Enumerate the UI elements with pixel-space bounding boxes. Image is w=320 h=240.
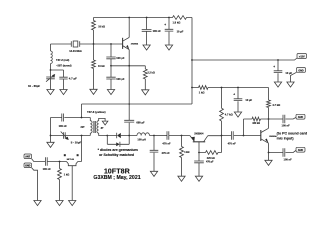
node collector rail junction: [128, 17, 130, 19]
connector AF out 2: [296, 147, 305, 152]
connector AF out 1: [296, 114, 305, 119]
capacitor C13 470uF emitter bypass: [194, 153, 204, 177]
transformer T1 core: [94, 121, 95, 133]
capacitor C12 100nF antenna: [45, 157, 66, 166]
svg-text:AUD: AUD: [298, 116, 303, 119]
node LO rail crossing: [128, 103, 130, 105]
wire LO emitter drop: [128, 66, 130, 121]
node C7 junction: [277, 59, 279, 61]
svg-text:GND: GND: [298, 69, 304, 72]
capacitor C10 470nF coupling: [166, 131, 182, 140]
svg-text:T37-2 (red): T37-2 (red): [56, 58, 69, 62]
node feedback cap junction: [110, 43, 112, 45]
capacitor C1 4.7pF: [59, 77, 67, 89]
connector ANT: [24, 154, 32, 159]
svg-text:(to PC sound card: (to PC sound card: [277, 131, 308, 135]
svg-text:4.7 kΩ: 4.7 kΩ: [225, 112, 233, 116]
wire tank line A: [51, 118, 91, 121]
node emitter feedback junction: [110, 65, 112, 67]
ground (below R6): [56, 201, 63, 206]
svg-text:T37-6 (yellow): T37-6 (yellow): [87, 110, 106, 114]
diode D1 (points left): [107, 133, 129, 138]
svg-text:~28T (tuned): ~28T (tuned): [56, 63, 72, 67]
wire crystal/base line: [51, 43, 123, 45]
connector GND input: [297, 68, 306, 73]
ground (below C8): [234, 112, 241, 117]
capacitor C9 100nF tank top: [62, 114, 64, 122]
node emitter junction: [128, 65, 130, 67]
svg-text:470 nF: 470 nF: [228, 142, 237, 146]
wire secondary bottom: [99, 133, 108, 135]
inductor L1 T37-2 tank coil: [51, 44, 53, 70]
wire secondary top to ground: [99, 118, 105, 121]
resistor R2 10k (osc base lower): [92, 44, 96, 89]
node mixer output junction: [128, 135, 130, 137]
svg-text:680 pF: 680 pF: [136, 121, 145, 125]
ground (GND jack): [287, 82, 294, 87]
svg-text:100 nF: 100 nF: [282, 123, 291, 127]
svg-text:10 kΩ: 10 kΩ: [98, 65, 105, 68]
capacitor C11 470nF AF shunt: [150, 136, 159, 172]
wire antenna to tank: [81, 136, 83, 162]
svg-text:10 kΩ: 10 kΩ: [98, 26, 105, 29]
resistor R4 1.8k supply filter: [169, 16, 192, 20]
ground (below C13): [195, 176, 202, 181]
transformer T1 primary 22T: [90, 121, 92, 133]
wire tank left side: [50, 118, 52, 136]
svg-text:mic input): mic input): [277, 136, 294, 140]
potentiometer RV1 attenuator pin b: [77, 154, 79, 156]
node Q2 emitter junction: [198, 152, 200, 154]
wire emitter node: [111, 65, 145, 67]
inductor L2 100uH: [129, 133, 154, 136]
svg-text:14.04 MHz: 14.04 MHz: [69, 49, 82, 53]
svg-text:470 µF: 470 µF: [206, 161, 214, 164]
svg-text:10 µF: 10 µF: [245, 98, 252, 102]
diode D2 (points right): [107, 136, 129, 147]
ground (earth stake): [34, 201, 41, 206]
node tank bottom junction: [50, 135, 52, 137]
svg-text:2.2 kΩ: 2.2 kΩ: [148, 72, 155, 75]
node +12V rail junction: [191, 59, 193, 61]
ground (below C11): [150, 171, 157, 176]
capacitor C6 10uF electrolytic: [165, 18, 174, 46]
node antenna coupling junction: [81, 135, 83, 137]
ground (below R3): [142, 90, 149, 95]
svg-text:+: +: [164, 23, 166, 27]
node diode branch junction: [106, 135, 108, 137]
transformer T1 secondary 3T: [97, 121, 99, 133]
svg-text:22T: 22T: [81, 126, 86, 129]
ground (tank): [47, 136, 54, 148]
ground (below R2): [90, 89, 97, 94]
variable capacitor VC1 10-60pF: [46, 70, 55, 90]
svg-text:ANT: ANT: [25, 156, 30, 159]
wire top supply rail: [94, 17, 170, 19]
transistor Q3 2N3904 AF amp 2: [260, 130, 262, 141]
capacitor C5 680pF LO injection: [124, 120, 134, 135]
capacitor C16 100nF output 2: [269, 148, 297, 157]
svg-text:470 nF: 470 nF: [162, 142, 171, 146]
svg-text:100 pF: 100 pF: [116, 77, 125, 81]
svg-text:GND: GND: [25, 165, 31, 168]
ground (below R7): [178, 176, 185, 181]
node R9 supply junction: [221, 87, 223, 89]
capacitor C7 10uF electrolytic: [274, 60, 283, 82]
node AF filter junction: [153, 135, 155, 137]
resistor R3 2.2k emitter: [143, 66, 147, 90]
svg-text:1 kΩ: 1 kΩ: [64, 174, 69, 177]
wire GND jack lead: [291, 72, 297, 82]
svg-text:100 pF: 100 pF: [116, 56, 125, 60]
capacitor C2 100pF (feedback upper): [106, 44, 115, 66]
node attenuator junction: [59, 161, 61, 163]
connector +12V input: [297, 54, 307, 59]
wire to coupling cap: [154, 135, 167, 137]
node LO feed junction: [81, 117, 83, 119]
node Q2 base junction: [181, 135, 183, 137]
ground (below C7): [274, 82, 281, 87]
resistor R7 1k input shunt: [180, 136, 184, 177]
node tank junction: [50, 69, 52, 71]
svg-text:or Schottky matched: or Schottky matched: [99, 153, 134, 157]
node audio rail junction: [191, 87, 193, 89]
svg-text:470 nF: 470 nF: [162, 151, 171, 155]
svg-text:+: +: [273, 65, 275, 69]
node Q3 base junction: [243, 135, 245, 137]
svg-text:100 nF: 100 nF: [43, 167, 52, 171]
ground (Q3 emitter): [265, 153, 272, 166]
node Q2 collector junction: [221, 135, 223, 137]
wire tank to padder cap: [51, 70, 64, 77]
svg-text:100 nF: 100 nF: [59, 124, 68, 128]
capacitor C14 470nF interstage: [222, 131, 244, 140]
resistor R5 1k audio supply filter: [192, 86, 269, 100]
ground (below C3): [107, 90, 114, 95]
variable capacitor VC2 5-65pF: [51, 132, 91, 139]
resistor R11 4.7k collector load: [267, 100, 271, 119]
wire supply vertical: [82, 18, 193, 118]
node base divider junction: [93, 43, 95, 45]
transistor Q2 2N3904 AF amp 1: [193, 141, 205, 143]
svg-text:1 kΩ: 1 kΩ: [184, 151, 189, 154]
svg-text:1 kΩ: 1 kΩ: [199, 90, 205, 94]
svg-text:AUD: AUD: [298, 149, 303, 152]
wire ANT lead: [32, 159, 46, 162]
svg-text:* diodes are germanium: * diodes are germanium: [98, 148, 138, 152]
potentiometer RV1 body: [67, 162, 82, 201]
svg-text:4.7 kΩ: 4.7 kΩ: [272, 103, 280, 107]
wire earth lead: [32, 168, 38, 201]
ground (below RV1): [69, 201, 76, 206]
svg-text:4.7 pF: 4.7 pF: [69, 76, 77, 80]
svg-text:100 nF: 100 nF: [153, 29, 162, 33]
svg-text:+: +: [233, 92, 235, 96]
svg-text:MFT-06: MFT-06: [67, 159, 75, 161]
transistor Q1 2N3904 oscillator: [122, 38, 124, 49]
resistor R6 1k antenna shunt: [58, 162, 62, 201]
ground (below C4): [143, 45, 150, 50]
svg-text:10FT8R: 10FT8R: [104, 166, 131, 175]
node Q3 collector junction: [268, 118, 270, 120]
resistor R10 330k feedback: [244, 117, 269, 135]
svg-text:5 - 10pF: 5 - 10pF: [71, 141, 82, 145]
capacitor C15 100nF output 1: [269, 115, 297, 124]
svg-text:10 µF: 10 µF: [285, 71, 292, 75]
resistor R8 220k feedback: [199, 136, 222, 155]
ground (below C1): [60, 90, 67, 95]
svg-text:10 µF: 10 µF: [177, 30, 184, 34]
node decoupling junction: [146, 17, 148, 19]
resistor R1 10k (osc base upper): [92, 18, 96, 45]
svg-text:100 nF: 100 nF: [284, 158, 293, 162]
svg-text:330 kΩ: 330 kΩ: [252, 123, 260, 125]
connector GND (earth): [24, 163, 32, 168]
svg-text:G3XBM ; May, 2021: G3XBM ; May, 2021: [93, 175, 140, 181]
capacitor C4 100nF rail decoupling: [142, 18, 152, 46]
capacitor C8 10uF electrolytic: [234, 88, 243, 113]
capacitor C3 100pF (feedback lower): [106, 66, 115, 90]
potentiometer RV1 attenuator pin a: [64, 154, 66, 156]
svg-text:3T: 3T: [101, 126, 104, 130]
svg-text:2N3904: 2N3904: [194, 131, 204, 135]
wire +12V rail: [192, 58, 297, 60]
crystal X1 14.04 MHz: [71, 41, 79, 46]
svg-text:100 µH: 100 µH: [137, 138, 146, 142]
ground (below C6): [165, 45, 172, 50]
node C8 junction: [237, 87, 239, 89]
ground (secondary top): [102, 121, 108, 125]
resistor R9 4.7k collector load: [220, 88, 224, 136]
node rail to R4: [168, 17, 170, 19]
node Q3 emitter junction: [268, 152, 270, 154]
svg-text:2N3904: 2N3904: [131, 42, 139, 45]
ground (below VC1): [47, 90, 54, 95]
svg-text:10 - 60pF: 10 - 60pF: [28, 84, 40, 88]
svg-text:1.8 kΩ: 1.8 kΩ: [173, 20, 181, 24]
svg-text:+12V: +12V: [299, 56, 305, 59]
